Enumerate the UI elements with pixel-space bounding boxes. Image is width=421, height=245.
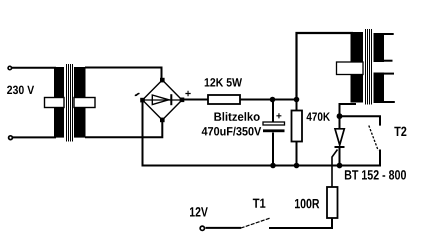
bridge diode cathode bar [170, 94, 172, 105]
thyristor V1 triangle [335, 129, 344, 145]
thyristor V1 cathode bar [335, 146, 345, 148]
transformer TR2 core [365, 29, 372, 105]
switch T2 blade [369, 126, 378, 151]
wire switch T2 bottom contact to ground rail [379, 150, 381, 167]
label T1 [253, 199, 266, 208]
terminal 230V top [8, 66, 12, 70]
capacitor C1 plus sign [276, 113, 281, 118]
transformer TR2 secondary upper loop leads [384, 34, 394, 61]
wire TR1 secondary top to bridge top [85, 68, 162, 81]
wire bottom-left terminal to transformer primary [13, 136, 57, 138]
transformer TR2 primary bobbin tab [337, 62, 364, 75]
switch T1 blade [241, 218, 271, 228]
node B 470K top [294, 97, 300, 103]
transformer TR1 primary bobbin tab [45, 98, 65, 108]
capacitor C1 bottom plate [263, 129, 285, 132]
wire bridge plus to resistor R1 [182, 99, 208, 101]
transformer TR2 secondary winding lower [374, 73, 385, 104]
node C thyristor anode [337, 113, 343, 119]
node 470K bottom [294, 163, 300, 169]
transformer TR2 secondary lower loop leads [384, 74, 395, 102]
resistor R3 100R [327, 187, 338, 218]
wire node C down to thyristor V1 [339, 116, 341, 129]
bridge node left [140, 98, 145, 103]
transformer TR1 core [66, 64, 73, 142]
wire capacitor C1 to ground rail [272, 133, 274, 167]
bridge node bottom [160, 118, 165, 123]
wire resistor R2 to ground rail [296, 142, 298, 167]
node A capacitor top [270, 97, 276, 103]
wire 12V terminal to switch T1 [206, 227, 242, 229]
bridge plus sign [185, 91, 190, 96]
label 470K [307, 112, 331, 121]
label 12K 5W [205, 78, 242, 87]
transformer TR1 secondary winding [74, 67, 86, 138]
label 12V [190, 207, 208, 216]
bridge node right [180, 98, 185, 103]
terminal 230V bottom [9, 136, 13, 140]
node capacitor bottom [270, 163, 276, 169]
bridge minus sign [135, 94, 140, 96]
wire TR1 secondary bottom to bridge bottom [85, 120, 162, 137]
label Blitzelko [214, 112, 259, 121]
transformer TR2 primary winding [351, 32, 364, 103]
ground rail [142, 165, 381, 167]
resistor R1 12K 5W [208, 95, 240, 104]
transformer TR1 secondary bobbin tab [74, 98, 95, 108]
resistor R2 470K [292, 111, 303, 142]
bridge rectifier outline [143, 80, 183, 120]
wire bridge minus corner down to ground rail [142, 100, 144, 167]
wire node C to switch T2 top contact [340, 116, 381, 125]
wire node B up and right to transformer T2 primary top [297, 33, 354, 100]
label 100R [295, 199, 319, 209]
wire resistor R3 bottom to switch T1 [269, 218, 332, 228]
label 230 V [7, 86, 34, 95]
label 470uF/350V [202, 127, 262, 136]
label T2 [394, 127, 406, 136]
terminal 12V [200, 226, 204, 230]
wire node B down to resistor R2 [296, 100, 298, 111]
node thyristor cathode on rail [337, 163, 343, 169]
bridge node top [160, 78, 165, 83]
thyristor V1 gate wire [332, 150, 338, 188]
wire thyristor cathode to ground rail [339, 147, 341, 166]
transformer TR2 secondary winding upper [374, 33, 385, 62]
capacitor C1 top plate [263, 122, 285, 125]
bridge internal line [144, 99, 180, 101]
wire node A down to capacitor C1 [272, 100, 274, 122]
bridge diode triangle [152, 95, 169, 105]
wire top-left terminal to transformer primary [12, 67, 57, 69]
wire TR2 primary bottom to node C [340, 104, 357, 116]
wire resistor R1 to node B [240, 99, 298, 101]
label BT 152 - 800 [345, 170, 406, 180]
transformer TR1 primary winding [54, 67, 64, 138]
